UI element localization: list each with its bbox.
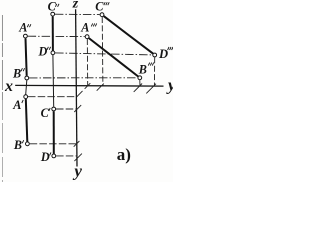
svg-text:D: D [38, 44, 48, 58]
svg-text:z: z [72, 0, 79, 12]
svg-text:C: C [48, 0, 57, 14]
svg-text:y: y [166, 76, 173, 95]
svg-text:D: D [158, 47, 168, 61]
svg-text:y: y [72, 161, 82, 180]
svg-text:C: C [95, 0, 104, 14]
svg-text:B: B [138, 62, 147, 76]
svg-text:a): a) [117, 145, 131, 164]
svg-text:A: A [12, 98, 21, 112]
svg-text:B: B [13, 138, 22, 152]
svg-text:C: C [41, 106, 50, 120]
svg-text:D: D [40, 150, 50, 164]
svg-text:B: B [12, 67, 21, 81]
svg-text:A: A [18, 20, 27, 34]
svg-text:A: A [80, 21, 89, 35]
svg-text:x: x [4, 78, 13, 95]
